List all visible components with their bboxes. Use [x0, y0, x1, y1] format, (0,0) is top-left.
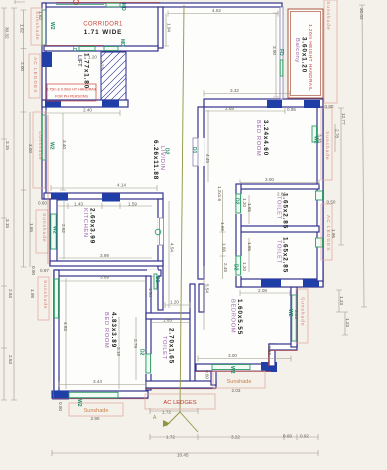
- room label TOILET 2: [276, 237, 289, 273]
- dimension 2.62: [63, 201, 65, 259]
- balcony footprint: [288, 9, 323, 98]
- svg-text:CORRIDOR1: CORRIDOR1: [83, 22, 123, 28]
- svg-text:1.20: 1.20: [88, 55, 97, 60]
- svg-text:Sunshade: Sunshade: [325, 1, 331, 31]
- wall passage / toilet3 right: [190, 284, 195, 388]
- wall kitchen top: [44, 193, 163, 199]
- svg-text:TOILET: TOILET: [161, 336, 167, 360]
- svg-text:TOILET: TOILET: [276, 196, 282, 220]
- svg-text:3.90: 3.90: [272, 46, 277, 55]
- window blue kitchen top 1: [51, 193, 68, 201]
- svg-text:1.96: 1.96: [331, 229, 336, 238]
- svg-text:3.60x1.20: 3.60x1.20: [301, 37, 308, 73]
- svg-text:1.94: 1.94: [167, 23, 172, 32]
- svg-text:0.90: 0.90: [31, 266, 36, 275]
- svg-text:0.80: 0.80: [325, 104, 334, 109]
- dimension left line 3: [21, 10, 27, 267]
- svg-text:3.22: 3.22: [231, 435, 240, 440]
- door D1 leaf (liv to bedroom1): [197, 138, 204, 166]
- window blue kitchen top 2: [102, 194, 120, 202]
- dimension 3.00 toilets: [240, 180, 319, 186]
- svg-text:0.83: 0.83: [267, 346, 272, 355]
- ventilator V toilet1 (green): [316, 191, 323, 200]
- lift hatched shaft: [101, 52, 126, 100]
- window W2 bedroom2 bottom (green): [69, 392, 118, 397]
- sunshade lines right of balcony: [324, 0, 337, 103]
- svg-text:D2: D2: [164, 148, 170, 155]
- room label BED ROOM 2: [103, 312, 117, 348]
- svg-text:3.40: 3.40: [62, 140, 67, 149]
- sunshade box left 4: [38, 277, 49, 320]
- svg-text:MD: MD: [120, 3, 126, 11]
- svg-text:KITCHEN: KITCHEN: [82, 208, 88, 238]
- wall bedroom3 top / toilets bottom: [238, 279, 323, 287]
- svg-text:3.16: 3.16: [318, 134, 323, 143]
- svg-text:4.83: 4.83: [63, 322, 68, 331]
- svg-text:LIFT: LIFT: [76, 55, 82, 67]
- room label Balcony: [294, 37, 308, 73]
- door D2 gap toilet3: [145, 354, 151, 374]
- svg-text:MD: MD: [119, 39, 125, 47]
- window blue lift bottom 1: [45, 100, 61, 108]
- door LD (green): [79, 47, 95, 51]
- room label BED ROOM 1: [255, 120, 269, 156]
- dimension 2.79: [135, 317, 137, 380]
- wall top: [44, 3, 282, 7]
- svg-text:AC LEDGES: AC LEDGES: [163, 400, 196, 406]
- svg-text:1.20: 1.20: [242, 198, 247, 207]
- ac ledges box left: [29, 54, 40, 98]
- svg-text:Balcony: Balcony: [294, 38, 300, 63]
- svg-text:BED ROOM: BED ROOM: [255, 120, 261, 156]
- svg-text:W2: W2: [49, 142, 55, 150]
- window W2 bedroom3 right (green): [292, 295, 296, 341]
- svg-text:1.71 WIDE: 1.71 WIDE: [84, 29, 123, 36]
- window blue bedroom1 top 2: [304, 100, 320, 108]
- svg-text:0.50: 0.50: [327, 200, 336, 205]
- svg-text:3.32: 3.32: [230, 88, 239, 93]
- svg-text:1.65: 1.65: [29, 223, 34, 232]
- svg-text:3.00: 3.00: [228, 353, 237, 358]
- svg-text:1.62: 1.62: [38, 11, 43, 20]
- dimension 3.44: [59, 382, 146, 388]
- wall toilet3 left: [146, 276, 151, 390]
- room label TOILET 1: [276, 193, 289, 229]
- svg-text:30.02: 30.02: [359, 8, 364, 20]
- svg-text:1.54: 1.54: [148, 288, 153, 297]
- balcony border: [288, 9, 323, 98]
- dimension 1.94: [163, 14, 169, 47]
- sunshade box right mid: [321, 108, 332, 180]
- dimension left line 2: [11, 8, 17, 400]
- dimension 4.54: [168, 201, 170, 308]
- red handrail line top wall: [56, 4, 104, 6]
- sunshade box left 2: [33, 112, 45, 188]
- window blue on left wall at lift: [43, 52, 53, 67]
- wall lift bottom: [42, 100, 128, 107]
- svg-text:Sunshade: Sunshade: [42, 280, 48, 310]
- dimension 4.14: [51, 185, 157, 191]
- svg-text:12.77: 12.77: [341, 113, 346, 125]
- svg-text:Sunshade: Sunshade: [84, 408, 109, 414]
- svg-text:Sunshade: Sunshade: [227, 379, 252, 385]
- svg-text:W2: W2: [76, 399, 82, 407]
- dimension 3.89: [59, 280, 146, 282]
- dimension 1.20 passage: [165, 302, 190, 308]
- svg-text:TOILET: TOILET: [276, 240, 282, 264]
- svg-text:1.43: 1.43: [74, 202, 83, 207]
- svg-text:D2: D2: [139, 349, 145, 356]
- svg-text:3.99: 3.99: [100, 253, 109, 258]
- dimension 1.72 upper: [150, 408, 198, 414]
- svg-text:1.2x1.6: 1.2x1.6: [217, 186, 222, 202]
- svg-text:FOR PH PERSONS: FOR PH PERSONS: [55, 95, 89, 99]
- svg-text:3.24x4.60: 3.24x4.60: [262, 120, 269, 156]
- svg-text:2.90: 2.90: [91, 416, 100, 421]
- window W2 bedroom2 left (green): [54, 279, 58, 318]
- svg-text:4.83x3.89: 4.83x3.89: [110, 312, 117, 348]
- ac ledges box right: [321, 204, 332, 260]
- wall liv/din right: [198, 107, 204, 279]
- sunshade box left 1: [31, 8, 42, 45]
- svg-text:W2: W2: [49, 22, 55, 30]
- dimension 3.00 bedroom3: [198, 356, 291, 362]
- window W2 left top (green): [42, 10, 45, 45]
- window W2 left mid (green): [42, 115, 45, 160]
- dimension 2.08 bedroom3: [240, 290, 290, 296]
- dimension 1.65 t2: [248, 238, 250, 272]
- svg-text:1.02: 1.02: [20, 24, 25, 33]
- svg-text:2.03: 2.03: [232, 388, 241, 393]
- window blue bedroom1 top 1: [267, 100, 282, 108]
- dimension 4.83: [65, 278, 67, 389]
- svg-text:AC LEDGES: AC LEDGES: [32, 57, 38, 93]
- svg-text:2.79: 2.79: [133, 339, 138, 348]
- wall left exterior: [42, 3, 46, 199]
- window blue lift bottom 2: [102, 100, 119, 108]
- door D2 kitchen gap + leaf: [157, 218, 163, 245]
- svg-text:1.66: 1.66: [222, 243, 227, 252]
- svg-text:1.98: 1.98: [30, 289, 35, 298]
- svg-text:2.62: 2.62: [61, 224, 66, 233]
- ventilator V toilet2 (green): [316, 238, 323, 247]
- bottom dimension row 2: [52, 450, 318, 456]
- svg-text:0.60: 0.60: [205, 370, 210, 379]
- svg-text:1.65: 1.65: [247, 242, 252, 251]
- svg-text:3.15: 3.15: [5, 141, 10, 150]
- svg-text:1.20m HEIGHT HANDRAIL: 1.20m HEIGHT HANDRAIL: [308, 24, 313, 91]
- ac ledges box bottom: [145, 394, 215, 409]
- section line A (olive): [153, 5, 198, 432]
- wall toilets left: [236, 184, 241, 287]
- dimension 2.68: [204, 108, 285, 114]
- red circle top: [73, 0, 78, 5]
- svg-text:D1: D1: [154, 276, 160, 283]
- top corner tick: [15, 0, 25, 4]
- svg-text:1.20: 1.20: [170, 300, 179, 305]
- wall bedroom3 right: [291, 287, 297, 347]
- svg-text:3.89: 3.89: [100, 275, 109, 280]
- door D2 toilet1 gap: [235, 194, 241, 214]
- svg-text:1.59: 1.59: [128, 202, 137, 207]
- svg-text:2.68: 2.68: [225, 106, 234, 111]
- dimension 3.19: [118, 317, 120, 389]
- dimension right line 30.02: [359, 5, 367, 307]
- wall kitchen right: [158, 199, 163, 310]
- window blue bedroom3 top 1: [261, 279, 281, 287]
- dim line x30: [29, 112, 31, 267]
- dimension right line 12.77: [338, 108, 344, 245]
- svg-text:D2: D2: [233, 264, 239, 271]
- svg-text:2.86: 2.86: [277, 192, 286, 197]
- door D2 toilet2 gap: [235, 256, 241, 276]
- wall toilet middle: [240, 226, 319, 232]
- svg-text:3.15: 3.15: [5, 219, 10, 228]
- svg-text:3.44: 3.44: [93, 379, 102, 384]
- wall toilet1 top: [240, 184, 319, 189]
- svg-text:BEDROOM: BEDROOM: [230, 299, 236, 333]
- door MD top (green): [106, 3, 120, 7]
- wall FD (thin): [280, 7, 283, 99]
- svg-text:1.20: 1.20: [242, 262, 247, 271]
- svg-text:3.00: 3.00: [28, 144, 33, 153]
- door FD mark (green): [280, 60, 283, 76]
- svg-text:Sunshade: Sunshade: [41, 213, 47, 243]
- svg-text:1.72: 1.72: [166, 435, 175, 440]
- window W2 right wall top (green): [312, 126, 317, 142]
- dim 1.23 b: [342, 312, 348, 335]
- sunshade box bottom left: [69, 403, 123, 421]
- door MD corridor bottom (green): [104, 47, 118, 51]
- svg-text:5.54: 5.54: [205, 284, 210, 293]
- window blue bedroom2 bottom: [52, 391, 69, 400]
- svg-text:2.00: 2.00: [20, 62, 25, 71]
- wall bedroom2 top: [55, 270, 161, 276]
- red accent exterior walls: [44, 2, 324, 398]
- svg-text:0.68: 0.68: [283, 434, 292, 439]
- svg-text:AC LEDGES: AC LEDGES: [325, 215, 331, 251]
- svg-text:1.66: 1.66: [220, 222, 225, 231]
- sunshade box left 3: [36, 210, 48, 253]
- door D1 gap bedroom2: [147, 269, 158, 276]
- dimension 1.65 t1: [248, 195, 250, 224]
- wall bedroom3 jog horizontal: [269, 344, 297, 350]
- dimension 4.62 top: [168, 11, 278, 17]
- wall building right: [317, 107, 323, 281]
- svg-text:3.00: 3.00: [265, 177, 274, 182]
- svg-text:FD: FD: [278, 49, 284, 56]
- wall corridor bottom / lift top: [44, 46, 158, 51]
- svg-text:2.23: 2.23: [294, 310, 299, 319]
- window blue bedroom3 bottom: [261, 362, 277, 372]
- wall toilet3 top: [146, 313, 194, 319]
- svg-text:10.45: 10.45: [177, 453, 189, 458]
- dimension 1.65 toilet3: [151, 322, 191, 324]
- svg-text:Sunshade: Sunshade: [300, 297, 306, 327]
- svg-text:1.65: 1.65: [247, 203, 252, 212]
- svg-text:2.48: 2.48: [223, 263, 228, 272]
- svg-text:D1: D1: [191, 147, 197, 154]
- room label LIV/DIN: [152, 140, 165, 180]
- room label LIFT: [76, 53, 90, 89]
- wall toilet3 / ac bottom: [146, 381, 216, 388]
- svg-text:4.45: 4.45: [205, 154, 210, 163]
- wall kitchen left: [50, 199, 57, 265]
- svg-text:0.90: 0.90: [58, 402, 63, 411]
- svg-text:4.54: 4.54: [170, 243, 175, 252]
- svg-text:1.23: 1.23: [339, 296, 344, 305]
- svg-text:W2: W2: [287, 309, 293, 317]
- red line kitchen sunshade edge: [47, 115, 49, 264]
- dimension 3.99: [59, 257, 152, 259]
- window W2 kitchen left (green): [51, 214, 56, 249]
- svg-text:2.53: 2.53: [8, 355, 13, 364]
- svg-text:LD: LD: [71, 45, 77, 52]
- svg-text:2.40: 2.40: [83, 108, 92, 113]
- svg-text:1.65x2.85: 1.65x2.85: [282, 193, 289, 229]
- wall vertical x211-216: [211, 368, 216, 385]
- svg-text:D2: D2: [234, 198, 240, 205]
- handrail note box (red): [46, 84, 97, 101]
- sunshade box bedroom3 right: [296, 289, 308, 343]
- svg-text:4.14: 4.14: [117, 183, 126, 188]
- wall corridor right: [158, 7, 163, 48]
- wall bedroom2 bottom: [52, 391, 148, 398]
- wall bedroom1 top (below balcony): [204, 99, 323, 107]
- wall bedroom3 bottom: [196, 364, 271, 371]
- svg-text:1.65x2.85: 1.65x2.85: [282, 237, 289, 273]
- svg-text:BED ROOM: BED ROOM: [103, 312, 109, 348]
- dimension 3.90 balcony: [273, 13, 279, 97]
- dimension row under kitchen top wall: [57, 203, 152, 209]
- svg-text:1.65: 1.65: [163, 318, 172, 323]
- building footprint: [42, 3, 323, 398]
- room label BEDROOM 3: [230, 299, 244, 335]
- svg-text:W2: W2: [229, 366, 235, 374]
- dimension 4.45: [207, 110, 209, 182]
- dimension 3.32: [204, 91, 290, 97]
- svg-text:Sunshade: Sunshade: [37, 131, 43, 161]
- dim 1.23 a: [336, 290, 342, 312]
- svg-text:Sunshade: Sunshade: [324, 131, 330, 161]
- wall bedroom2 left: [54, 270, 59, 398]
- svg-text:2.08: 2.08: [258, 288, 267, 293]
- window blue bedroom3 top 2: [303, 279, 319, 287]
- svg-text:1.60x5.55: 1.60x5.55: [236, 299, 243, 335]
- svg-text:2.23: 2.23: [100, 60, 105, 69]
- svg-text:0.97: 0.97: [40, 268, 49, 273]
- svg-text:0.60: 0.60: [38, 201, 47, 206]
- dimension left line 1: [1, 8, 7, 400]
- svg-text:2.60x3.99: 2.60x3.99: [89, 208, 96, 244]
- window W2 bedroom3 bottom (green): [212, 365, 250, 370]
- svg-text:0.92: 0.92: [300, 434, 309, 439]
- svg-text:4.62: 4.62: [212, 8, 221, 13]
- dimension 3.40: [60, 113, 66, 190]
- svg-text:0.95: 0.95: [287, 107, 296, 112]
- bottom dimension row 1: [150, 434, 318, 440]
- sunshade box bottom center: [213, 371, 265, 393]
- svg-text:6.26x11.88: 6.26x11.88: [152, 140, 159, 180]
- dimension 5.54: [203, 266, 205, 330]
- svg-text:2.70x1.65: 2.70x1.65: [168, 328, 175, 364]
- room label KITCHEN: [82, 208, 96, 244]
- dimension 2.40: [46, 110, 120, 116]
- wall bedroom3 jog vertical: [269, 344, 275, 366]
- room label TOILET 3: [161, 328, 175, 364]
- svg-text:1.72: 1.72: [162, 410, 171, 415]
- svg-text:2.53: 2.53: [8, 289, 13, 298]
- svg-text:3.19: 3.19: [116, 347, 121, 356]
- svg-text:W2: W2: [52, 226, 58, 234]
- wall kitchen bottom: [50, 261, 163, 266]
- svg-text:1.23: 1.23: [345, 318, 350, 327]
- svg-text:30.32: 30.32: [5, 27, 10, 39]
